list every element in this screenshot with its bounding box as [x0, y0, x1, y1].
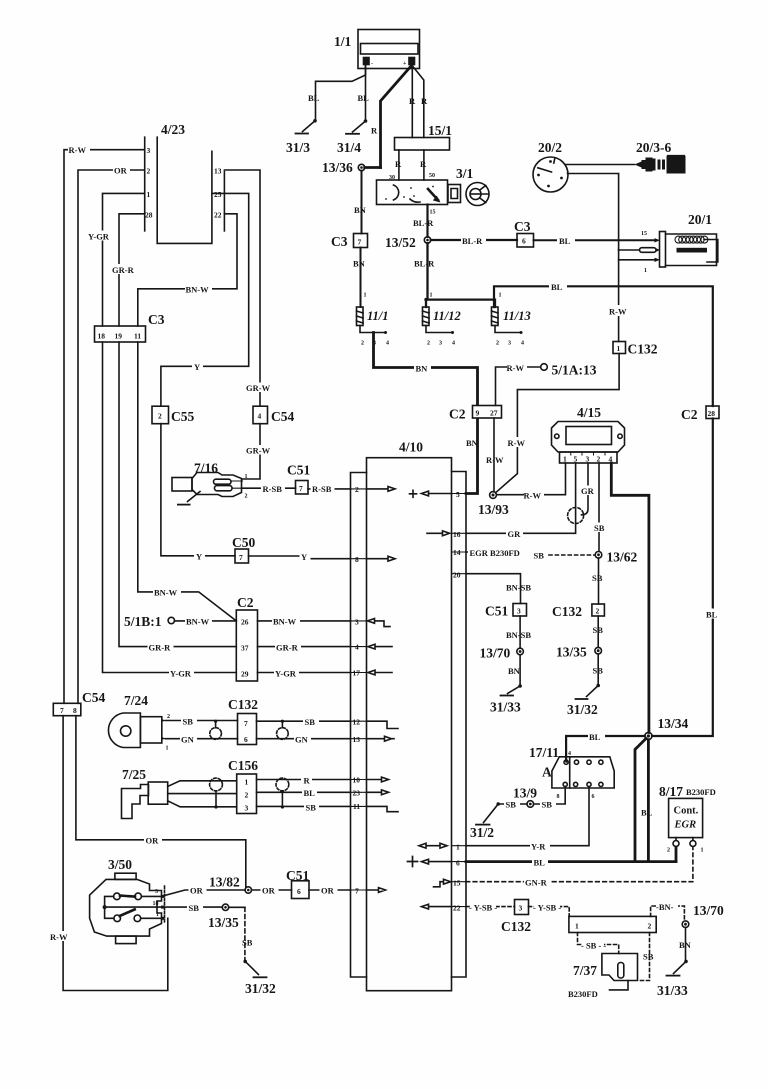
- svg-text:SB: SB: [242, 938, 253, 948]
- svg-text:SB: SB: [189, 903, 200, 913]
- wire SB dashed valve pin 2 to 7/37 right: [638, 933, 650, 981]
- wire SB 4/15 pin 2 to 13/62: [598, 463, 600, 551]
- wire SB dashed valve pin 1 to 7/37: [578, 933, 619, 954]
- svg-text:6: 6: [592, 794, 595, 800]
- splice 13/70 lower: [682, 921, 689, 928]
- svg-text:1: 1: [245, 778, 249, 787]
- svg-text:5/1A:13: 5/1A:13: [552, 363, 597, 378]
- ECU arrow pin 23: [367, 790, 389, 795]
- wire coil HV to distributor vertical: [619, 249, 640, 251]
- svg-text:OR: OR: [262, 886, 276, 896]
- svg-text:50: 50: [429, 173, 435, 179]
- wire BL 4/15 pin 4 to 13/34 (thick): [611, 463, 649, 733]
- svg-text:C2: C2: [449, 407, 466, 422]
- svg-text:BN-W: BN-W: [273, 617, 297, 627]
- svg-text:13/93: 13/93: [478, 502, 509, 517]
- svg-text:R-W: R-W: [609, 307, 627, 317]
- svg-text:3: 3: [355, 618, 359, 627]
- svg-text:5/1B:1: 5/1B:1: [124, 614, 162, 629]
- 4/15 pin numbers 1 5 3 2 4: [563, 455, 613, 464]
- svg-text:13/70: 13/70: [693, 903, 724, 918]
- svg-text:B230FD: B230FD: [686, 787, 716, 797]
- ECU arrow pin 2: [367, 487, 396, 492]
- svg-text:1: 1: [430, 293, 433, 299]
- svg-text:15/1: 15/1: [428, 123, 452, 138]
- wire BN-SB C51-3 to 13/70: [519, 616, 521, 648]
- svg-text:C132: C132: [228, 697, 258, 712]
- wire BN-SB ECU pin 20 to C51 pin 3: [466, 574, 521, 604]
- svg-text:BL: BL: [559, 236, 571, 246]
- battery 1/1: [358, 30, 420, 69]
- wire BN 13/70 to ground 31/33: [519, 655, 521, 686]
- EGR controller 8/17: [669, 798, 703, 846]
- svg-text:GR: GR: [508, 529, 522, 539]
- svg-text:13: 13: [214, 167, 222, 176]
- svg-text:BL: BL: [551, 282, 563, 292]
- svg-text:15: 15: [453, 879, 461, 888]
- svg-text:SB: SB: [306, 803, 317, 813]
- throttle switch 3/50: [90, 873, 165, 943]
- connector C51 pin 3: [513, 604, 527, 617]
- svg-text:4: 4: [355, 643, 359, 652]
- wire BN dashed valve pin 2 to 13/70: [651, 906, 685, 921]
- spark plug 20/3-6: [635, 156, 686, 174]
- splice 13/35 right: [595, 647, 602, 654]
- svg-text:GN: GN: [181, 735, 195, 745]
- svg-text:R-W: R-W: [508, 438, 526, 448]
- svg-text:6: 6: [244, 735, 248, 744]
- svg-text:2: 2: [667, 848, 670, 854]
- svg-text:20/1: 20/1: [688, 212, 712, 227]
- ground 31/32: [243, 960, 266, 978]
- ECU arrow pin 5 with plus: [422, 491, 452, 496]
- wire BL 13/34 diagonal to ECU pin 6 (thick): [635, 739, 646, 862]
- svg-text:15: 15: [641, 231, 647, 237]
- svg-text:13/70: 13/70: [480, 646, 511, 661]
- svg-text:2: 2: [245, 494, 248, 500]
- wire SB 13/35 to ground 31/32: [229, 906, 245, 908]
- connector C51 pin 7: [296, 481, 309, 495]
- wire 20/2 to spark plugs 20/3-6: [565, 164, 635, 166]
- svg-text:6: 6: [522, 237, 526, 246]
- wire BN fuse 11/1 to ECU pin 5 (thick): [374, 333, 478, 494]
- svg-text:Y-GR: Y-GR: [170, 669, 192, 679]
- svg-text:-: -: [371, 61, 373, 67]
- svg-text:BN-SB: BN-SB: [506, 583, 531, 593]
- svg-text:C132: C132: [501, 919, 531, 934]
- fuse 11/13 bottom pins: [495, 326, 524, 347]
- wire OR 13/82 to C51 pin 6: [252, 889, 292, 891]
- svg-text:GR-R: GR-R: [112, 265, 135, 275]
- svg-text:-BN-: -BN-: [656, 902, 674, 912]
- svg-text:C3: C3: [514, 219, 531, 234]
- wire R-W 4/23 pin 3 to left column: [64, 150, 145, 704]
- svg-text:2: 2: [361, 341, 364, 347]
- svg-text:4/15: 4/15: [577, 405, 601, 420]
- wire BN 13/70 to ground 31/33: [685, 928, 687, 962]
- svg-text:OR: OR: [321, 886, 335, 896]
- svg-text:13/62: 13/62: [607, 550, 638, 565]
- svg-text:7: 7: [358, 238, 362, 247]
- svg-text:3: 3: [586, 455, 590, 464]
- wire BL battery minus to 31/4: [365, 65, 367, 122]
- svg-text:4: 4: [386, 341, 389, 347]
- wire 20/2 to coil HV via vertical: [568, 174, 619, 251]
- svg-text:13/82: 13/82: [209, 875, 240, 890]
- wire GR 4/15 pin 5 to ECU pin 16: [466, 463, 576, 533]
- svg-text:29: 29: [241, 670, 249, 679]
- shield of 7/25 cable left: [210, 778, 223, 809]
- ground 31/4: [346, 119, 367, 134]
- wire BN-W C3-11 to C2 pin 26: [138, 342, 237, 621]
- svg-text:9: 9: [476, 409, 480, 418]
- wire BN-W C2-26 to ECU pin 3: [258, 620, 351, 622]
- wire R 15/1 to 3/1 pin 50: [423, 150, 425, 180]
- wires 7/25 to C156: [168, 781, 237, 807]
- wire SB C132-7 to ECU pin 12: [257, 720, 351, 722]
- ECU arrow pin 4: [368, 644, 392, 649]
- wire R-W C54-7 to 3/50 pin 1: [63, 716, 168, 991]
- svg-text:BN-SB: BN-SB: [506, 630, 531, 640]
- ground 31/33 upper: [501, 684, 522, 695]
- svg-text:1: 1: [499, 293, 502, 299]
- svg-text:3: 3: [519, 904, 523, 913]
- svg-text:BN: BN: [354, 205, 367, 215]
- svg-text:BL: BL: [304, 788, 316, 798]
- svg-text:A: A: [542, 765, 552, 780]
- svg-text:GN-R: GN-R: [525, 878, 548, 888]
- shield stub GR 4/15 pin 3: [582, 463, 589, 515]
- connector C132 pin 1: [613, 342, 626, 354]
- distributor 20/2: [533, 157, 568, 192]
- svg-text:C54: C54: [271, 409, 294, 424]
- svg-text:6: 6: [456, 859, 460, 868]
- wire BL C2-28 to 13/34 (thick): [652, 419, 713, 737]
- splice 13/52: [424, 237, 430, 243]
- wire Y C50 to ECU pin 8: [249, 556, 351, 559]
- wire GN C132-6 to ECU pin 13: [257, 738, 351, 740]
- connector C156 pins 1 2 3: [237, 774, 257, 814]
- svg-text:R: R: [421, 96, 428, 106]
- svg-text:- SB - -: - SB - -: [581, 941, 606, 951]
- svg-text:R-SB: R-SB: [312, 484, 332, 494]
- svg-text:C3: C3: [148, 312, 165, 327]
- wire Y 4/23 pin 25 to C55: [161, 193, 249, 406]
- ignition switch 3/1: [377, 180, 461, 205]
- svg-text:26: 26: [241, 618, 249, 627]
- svg-text:2: 2: [427, 341, 430, 347]
- svg-text:31/2: 31/2: [470, 825, 494, 840]
- svg-text:4: 4: [521, 341, 524, 347]
- wire BN C3-7 to fuse 11/1: [360, 248, 362, 308]
- svg-text:8: 8: [73, 706, 77, 715]
- svg-text:31/33: 31/33: [657, 983, 688, 998]
- ECU arrow pin 10: [367, 777, 389, 782]
- svg-text:- Y-SB -: - Y-SB -: [469, 903, 497, 913]
- rpm sensor 7/25: [122, 782, 168, 819]
- wire GR-W 4/23 pin 13 to C54: [224, 170, 260, 406]
- svg-text:1: 1: [701, 848, 704, 854]
- wire BL 13/34 to 8/17 pin 2 (thick): [648, 740, 676, 862]
- svg-text:GR-R: GR-R: [149, 643, 172, 653]
- splice 13/62: [595, 552, 602, 559]
- shield circle on GR wire: [568, 508, 584, 524]
- fuse 11/12: [423, 307, 430, 326]
- svg-text:16: 16: [453, 530, 461, 539]
- svg-text:3: 3: [517, 607, 521, 616]
- svg-text:19: 19: [115, 332, 123, 341]
- wire BL ECU pin 6 bus (thick): [466, 860, 676, 863]
- svg-text:5: 5: [456, 490, 460, 499]
- svg-text:R-W: R-W: [486, 455, 504, 465]
- svg-text:2: 2: [167, 714, 170, 720]
- svg-text:28: 28: [708, 409, 716, 418]
- svg-text:B230FD: B230FD: [568, 989, 598, 999]
- svg-text:BN: BN: [679, 940, 692, 950]
- connector C54 pin 4: [253, 406, 268, 424]
- wire BL-R 13/52 to fuses 11/12 11/13: [426, 243, 495, 307]
- svg-text:3: 3: [155, 889, 158, 895]
- wire GR-R C2-37 to ECU pin 4: [258, 646, 351, 648]
- svg-text:BL: BL: [358, 93, 370, 103]
- svg-text:Cont.: Cont.: [674, 806, 699, 817]
- svg-text:1: 1: [245, 474, 248, 480]
- wire R-W 13/93 to 4/15 pin 1: [497, 463, 566, 495]
- svg-text:BN: BN: [466, 438, 479, 448]
- wire BN-W 5/1B:1 to C2 pin 26: [175, 620, 237, 622]
- wire OR 3/50 pin 3 to 13/82: [164, 890, 245, 896]
- svg-text:31/4: 31/4: [337, 140, 361, 155]
- svg-text:12: 12: [353, 718, 361, 727]
- svg-text:4/10: 4/10: [399, 440, 423, 455]
- wire GN-R dashed ECU pin 15 to 8/17 pin 1: [466, 847, 693, 882]
- svg-text:R-W: R-W: [69, 145, 87, 155]
- wire BN 13/36 to C3 pin 7: [361, 171, 363, 234]
- svg-text:GR: GR: [581, 486, 595, 496]
- svg-text:3: 3: [439, 341, 442, 347]
- svg-text:+: +: [403, 61, 407, 67]
- terminal 5/1B:1: [168, 617, 174, 623]
- connector C54 pins 7 8: [53, 703, 81, 715]
- fuse box 15/1: [395, 138, 450, 151]
- fuse 11/1 bottom pins: [360, 326, 389, 347]
- svg-text:2: 2: [147, 167, 151, 176]
- svg-text:R: R: [420, 159, 427, 169]
- key symbol of 3/1: [466, 183, 489, 206]
- wire Y-SB dashed C132-3 to EGR valve pin 1: [529, 907, 570, 917]
- wire GR-R 4/23 pin 28 to C3 pin 19: [119, 214, 145, 326]
- svg-text:SB: SB: [542, 800, 553, 810]
- svg-text:23: 23: [353, 789, 361, 798]
- wire R battery plus to 15/1 pin b: [413, 66, 424, 138]
- svg-text:8: 8: [355, 555, 359, 564]
- svg-text:1: 1: [575, 922, 579, 931]
- wire coil terminal 1 to R-W vertical: [619, 259, 655, 261]
- ECU arrow pin 3: [368, 619, 391, 627]
- wire OR C51-6 to ECU pin 7: [309, 889, 351, 891]
- svg-text:5: 5: [574, 455, 578, 464]
- svg-text:1: 1: [166, 746, 169, 752]
- svg-text:SB: SB: [592, 573, 603, 583]
- ECU arrow pin 8: [367, 556, 396, 561]
- wire Y-GR 4/23 pin 1 to C3 pin 18: [103, 193, 145, 326]
- wire R-W C132-1 to 13/93: [496, 354, 620, 493]
- svg-text:C55: C55: [171, 409, 194, 424]
- wire GR-R C3-19 to C2 pin 37: [119, 342, 236, 647]
- wire R battery plus to 15/1 pin a: [411, 65, 413, 138]
- svg-text:11/1: 11/1: [367, 309, 389, 323]
- wire Y-GR C3-18 to C2 pin 29: [103, 342, 237, 673]
- svg-text:3/1: 3/1: [456, 166, 474, 181]
- svg-text:BL: BL: [534, 858, 546, 868]
- splice 13/36: [358, 164, 380, 170]
- fuse 11/12 bottom pins: [426, 326, 455, 347]
- svg-text:GR-W: GR-W: [246, 383, 271, 393]
- wire R-W C2-27 to splice 13/93: [493, 418, 495, 492]
- ECU pin stubs: [351, 489, 367, 890]
- svg-text:BN: BN: [416, 364, 429, 374]
- svg-text:BL: BL: [706, 610, 718, 620]
- svg-text:17/11: 17/11: [529, 745, 559, 760]
- svg-text:1: 1: [456, 843, 460, 852]
- connector C2 pin 28: [706, 406, 719, 419]
- svg-text:4: 4: [568, 751, 571, 757]
- ground 31/3: [296, 119, 317, 134]
- wire SB C156-3 to ECU pin 11: [257, 805, 351, 807]
- ECU arrow pin 7: [367, 888, 386, 893]
- ECU arrow pin 6 with plus: [422, 859, 452, 864]
- svg-text:22: 22: [453, 904, 461, 913]
- svg-text:BN-W: BN-W: [154, 588, 178, 598]
- ECU hook pin 15: [434, 879, 451, 887]
- svg-text:7: 7: [244, 719, 248, 728]
- ECU arrow pin 13: [367, 736, 395, 741]
- shield of 7/25 cable right: [276, 778, 289, 809]
- knock sensor 7/24: [108, 713, 165, 748]
- coolant temperature sensor 7/16: [172, 473, 243, 505]
- wire Y C55 to C50: [161, 424, 235, 556]
- svg-text:C156: C156: [228, 758, 258, 773]
- svg-text:SB: SB: [305, 717, 316, 727]
- svg-text:1: 1: [156, 912, 159, 918]
- svg-text:SB: SB: [593, 666, 604, 676]
- svg-text:18: 18: [98, 332, 106, 341]
- svg-text:17: 17: [353, 669, 361, 678]
- svg-text:BL: BL: [589, 732, 601, 742]
- svg-text:13/52: 13/52: [385, 235, 416, 250]
- svg-text:BL: BL: [308, 93, 320, 103]
- svg-text:R-W: R-W: [524, 491, 542, 501]
- wire BL-R 3/1 pin 15 to 13/52: [426, 205, 428, 237]
- connector C3 pin 7: [354, 234, 368, 248]
- svg-text:2: 2: [648, 922, 652, 931]
- svg-text:11/12: 11/12: [433, 309, 461, 323]
- wire BL-R 13/52 to C3 pin 6: [431, 239, 517, 241]
- svg-text:SB: SB: [534, 551, 545, 561]
- svg-text:11/13: 11/13: [503, 309, 531, 323]
- splice 13/9: [527, 801, 534, 808]
- svg-text:- Y-SB -: - Y-SB -: [533, 903, 561, 913]
- wire R-W C2-27 to terminal 5/1A:13: [496, 367, 541, 406]
- wire SB 13/35 to ground 31/32: [597, 654, 599, 685]
- svg-text:C2: C2: [237, 595, 254, 610]
- svg-text:28: 28: [145, 211, 153, 220]
- svg-text:14: 14: [453, 548, 461, 557]
- svg-text:1: 1: [563, 455, 567, 464]
- connector C50 pin 7: [235, 549, 249, 563]
- ground 31/32 right: [576, 684, 601, 699]
- relay 17/11: [552, 757, 614, 788]
- svg-text:C132: C132: [552, 604, 582, 619]
- ECU arrow pin 22: [422, 904, 452, 909]
- splice 13/34: [645, 732, 652, 739]
- svg-text:OR: OR: [114, 166, 128, 176]
- svg-text:R: R: [395, 159, 402, 169]
- svg-text:R-W: R-W: [507, 363, 525, 373]
- wire SB 3/50 pin 18 to 13/35: [164, 906, 222, 908]
- svg-text:18: 18: [153, 901, 159, 907]
- svg-text:SB: SB: [183, 717, 194, 727]
- terminal 5/1A:13: [541, 364, 548, 371]
- svg-text:7/37: 7/37: [573, 963, 597, 978]
- svg-text:Y: Y: [196, 552, 202, 562]
- svg-text:1: 1: [644, 268, 647, 274]
- power stage 4/15: [552, 422, 625, 464]
- svg-text:BL: BL: [641, 808, 653, 818]
- svg-text:OR: OR: [190, 886, 204, 896]
- svg-text:1: 1: [617, 344, 621, 353]
- svg-text:13/34: 13/34: [658, 716, 689, 731]
- svg-text:C54: C54: [82, 690, 105, 705]
- svg-text:BL-R: BL-R: [413, 218, 434, 228]
- wire R C156-1 to ECU pin 10: [257, 779, 351, 781]
- ECU right band pin numbers: [453, 490, 461, 913]
- svg-text:13/35: 13/35: [556, 645, 587, 660]
- wire SB 7/24 pin 2 to C132 pin 7: [165, 720, 237, 722]
- svg-text:31/32: 31/32: [567, 702, 598, 717]
- wire R-W coil tach to C132 pin 1: [618, 250, 620, 342]
- svg-text:30: 30: [389, 175, 395, 181]
- shield of 7/24 cable left: [210, 720, 222, 740]
- wire BN-W 4/23 pin 22 to C3 pin 11: [138, 214, 237, 326]
- svg-text:EGR: EGR: [674, 820, 697, 831]
- svg-text:13/36: 13/36: [322, 160, 353, 175]
- svg-text:11: 11: [134, 332, 141, 341]
- wire BL battery minus to 31/3: [316, 65, 366, 121]
- wire BL C3-6 to coil 20/1 terminal 15: [534, 239, 655, 241]
- svg-text:7: 7: [239, 553, 243, 562]
- wire R 15/1 to 3/1 pin 30: [398, 150, 400, 180]
- svg-text:8/17: 8/17: [659, 784, 683, 799]
- svg-text:BN-W: BN-W: [186, 285, 210, 295]
- ECU hook pin 12: [367, 721, 399, 728]
- wire BL fuse 11/13 to C2 pin 28 (bus): [494, 286, 713, 406]
- svg-text:EGR B230FD: EGR B230FD: [470, 548, 520, 558]
- splice 13/82: [245, 887, 251, 893]
- svg-text:7/24: 7/24: [124, 693, 148, 708]
- connector C132 pins 7 6: [238, 714, 257, 745]
- wire R-SB C51 to ECU pin 2: [308, 488, 351, 490]
- wire Y-SB dashed ECU pin 22 to C132 pin 3: [466, 906, 515, 908]
- EGR vacuum valve connector box: [569, 916, 656, 932]
- svg-text:C50: C50: [232, 535, 255, 550]
- svg-text:15: 15: [430, 210, 436, 216]
- svg-text:C51: C51: [485, 604, 508, 619]
- ECU 4/10 housing: [351, 458, 467, 991]
- svg-text:BN-W: BN-W: [186, 617, 210, 627]
- wire SB 13/62 to C132 pin 2: [598, 558, 600, 604]
- svg-text:7/25: 7/25: [122, 767, 146, 782]
